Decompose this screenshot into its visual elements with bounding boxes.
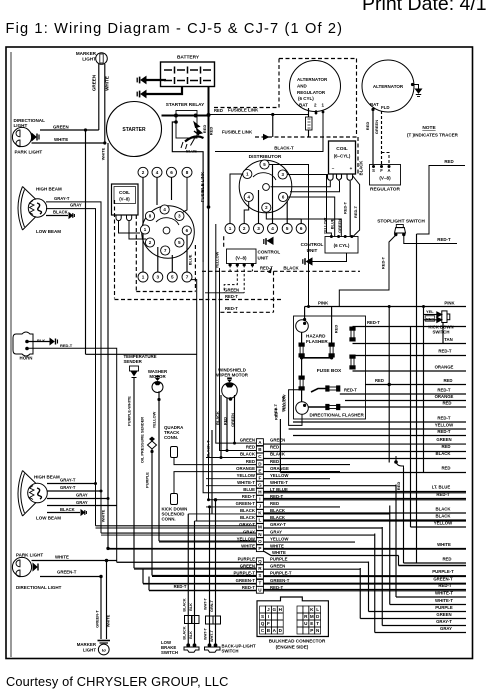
wire bus x219.5 <box>220 268 257 451</box>
junction pink kickdown <box>422 305 425 308</box>
wire row P white long <box>108 547 256 549</box>
wire red to kickdown <box>424 319 438 321</box>
svg-text:PARK LIGHT: PARK LIGHT <box>16 553 43 558</box>
battery ground lead 2 <box>146 87 182 95</box>
svg-text:GRAY-T: GRAY-T <box>54 196 70 201</box>
wire U red-t right <box>263 590 466 592</box>
wire D red right <box>263 464 350 466</box>
wire kickdown down to tan <box>442 323 444 344</box>
rotor center <box>263 184 270 191</box>
wires to back-up light switch <box>209 507 211 645</box>
svg-text:RED-T: RED-T <box>344 388 357 393</box>
resistor block <box>306 117 313 130</box>
svg-text:WHITE: WHITE <box>270 543 284 548</box>
svg-text:WHT-T: WHT-T <box>204 627 208 640</box>
wire center pin down <box>258 190 260 224</box>
svg-text:J: J <box>267 607 270 612</box>
svg-text:3: 3 <box>257 226 260 231</box>
dashed vertical x273.5 <box>273 271 275 312</box>
alternator ground <box>411 83 414 86</box>
svg-text:ORANGE: ORANGE <box>435 365 454 370</box>
relay lever and arrows <box>181 122 204 149</box>
svg-text:RED: RED <box>442 557 451 562</box>
svg-text:GRAY: GRAY <box>270 529 282 534</box>
terminal 1 wire black-t <box>215 110 323 152</box>
svg-text:BLK: BLK <box>189 631 193 639</box>
wire red row from fuse <box>340 406 466 408</box>
pin 5 <box>260 160 269 169</box>
svg-text:RED-T: RED-T <box>270 494 284 499</box>
cylinder terminals 2,4,6,8 (v8) <box>138 167 148 177</box>
svg-text:BLACK: BLACK <box>183 626 187 640</box>
svg-text:S: S <box>261 614 264 619</box>
junction red <box>388 383 391 386</box>
connector arrows directional light <box>32 134 39 141</box>
svg-text:G: G <box>273 607 277 612</box>
terminal T GREEN-T <box>256 580 263 587</box>
svg-text:BLUE: BLUE <box>186 149 197 154</box>
svg-text:3: 3 <box>157 275 160 280</box>
ground headlight upper <box>69 213 74 218</box>
wire bat to regulator S <box>371 108 374 111</box>
svg-text:(6 CYL): (6 CYL) <box>298 96 314 101</box>
wire horn red-t down to Q row <box>27 348 117 562</box>
dashed v8 control unit left <box>223 236 225 247</box>
wire white thick row 565.5 <box>399 565 467 567</box>
wires v8 distributor top terminals <box>142 177 144 225</box>
wire pin1 to cyl row <box>230 174 243 224</box>
svg-text:RED: RED <box>441 444 450 449</box>
svg-text:BLACK: BLACK <box>240 508 256 513</box>
directional-park light (front left) <box>12 127 31 146</box>
wire row U left <box>149 589 256 591</box>
junction white P row <box>106 547 109 550</box>
svg-text:RED-T: RED-T <box>60 343 73 348</box>
svg-text:M: M <box>258 525 262 530</box>
svg-text:YELLOW: YELLOW <box>323 217 328 234</box>
svg-text:WHITE: WHITE <box>437 542 451 547</box>
svg-text:SWITCH: SWITCH <box>161 650 178 655</box>
svg-text:P: P <box>310 628 313 633</box>
svg-text:RED: RED <box>396 482 401 491</box>
svg-text:RED: RED <box>270 445 279 450</box>
svg-text:ORANGE: ORANGE <box>435 394 454 399</box>
wire gray upper to bus <box>46 209 96 526</box>
svg-text:WHITE: WHITE <box>105 76 110 91</box>
wire hazard feed down <box>304 307 306 320</box>
svg-text:STARTER: STARTER <box>122 127 146 133</box>
bulkhead connector (engine side) <box>257 597 328 637</box>
svg-text:GREEN-T: GREEN-T <box>236 501 256 506</box>
wire coil positive down to control unit <box>349 181 351 237</box>
coil terminals <box>328 174 353 181</box>
wire tan row <box>353 343 467 345</box>
wire B red right <box>263 451 466 453</box>
wire pin5 right down <box>269 165 309 307</box>
svg-text:LT. BLUE: LT. BLUE <box>432 485 451 490</box>
regulator (v8) <box>370 165 401 186</box>
dashed wires from v8 control unit terminals <box>229 265 231 271</box>
pin 4 <box>244 192 253 201</box>
svg-text:DIRECTIONAL FLASHER: DIRECTIONAL FLASHER <box>310 413 365 418</box>
dashed fusible link label line <box>214 107 279 109</box>
terminal U RED-T <box>256 586 263 593</box>
svg-text:GREEN-T: GREEN-T <box>57 570 77 575</box>
wire red-t row 498 <box>263 498 466 500</box>
svg-text:GREEN: GREEN <box>436 437 451 442</box>
svg-text:RED-T: RED-T <box>242 585 256 590</box>
alternator and regulator (6 cyl) <box>290 61 341 112</box>
svg-text:RED-T: RED-T <box>343 201 348 214</box>
svg-text:L: L <box>316 607 319 612</box>
wire coil v8 terminal 2 <box>129 221 146 239</box>
wire red row 472 <box>280 472 466 474</box>
terminal O YELLOW <box>256 538 263 545</box>
wire hazard to fuse <box>301 332 303 343</box>
wire row N gray long <box>101 532 256 534</box>
wire coil outer red-t down <box>353 176 360 237</box>
wire starter to battery <box>162 115 209 117</box>
wire white bus x108 <box>107 143 109 548</box>
wire red-t row 422 <box>293 421 466 423</box>
svg-text:YELLOW: YELLOW <box>270 473 289 478</box>
svg-text:RED: RED <box>443 378 452 383</box>
pin 6 <box>279 192 288 201</box>
svg-text:(V–8): (V–8) <box>379 176 391 181</box>
svg-text:2: 2 <box>142 170 145 175</box>
wire coil center tap left <box>290 181 340 192</box>
wire from junction down <box>272 115 274 138</box>
low brake switch <box>186 643 190 647</box>
inline connector low brake <box>185 616 193 624</box>
svg-text:YELLOW: YELLOW <box>281 395 286 412</box>
wire K black right <box>263 513 389 515</box>
terminal K BLACK <box>256 510 263 517</box>
svg-text:A: A <box>387 168 390 173</box>
svg-text:HIGH BEAM: HIGH BEAM <box>34 475 60 480</box>
fuse horizontal upper <box>326 386 340 391</box>
coil (v-8) <box>112 184 139 215</box>
svg-text:DISTRIBUTOR: DISTRIBUTOR <box>249 154 282 160</box>
svg-text:GREEN-T: GREEN-T <box>236 578 256 583</box>
terminal L BLACK <box>256 517 263 524</box>
fuse hazard right <box>329 343 334 357</box>
wire park white long <box>32 560 117 562</box>
svg-text:(V–8): (V–8) <box>235 256 247 261</box>
terminal D RED <box>256 460 263 467</box>
svg-text:RED-T: RED-T <box>437 416 451 421</box>
wire Q purple right <box>263 561 368 563</box>
svg-text:RED: RED <box>365 122 370 131</box>
pin 2 <box>262 203 271 212</box>
svg-text:ω: ω <box>102 648 106 654</box>
svg-text:PURPLE-T: PURPLE-T <box>270 571 292 576</box>
svg-text:RED: RED <box>441 466 450 471</box>
svg-text:RED-T: RED-T <box>381 256 386 269</box>
svg-text:7: 7 <box>186 275 189 280</box>
wire A green right <box>263 443 466 445</box>
terminal S PURPLE-T <box>256 572 263 579</box>
svg-text:HIGH BEAM: HIGH BEAM <box>36 187 62 192</box>
svg-text:SWITCH: SWITCH <box>433 329 450 334</box>
svg-text:YELLOW: YELLOW <box>270 536 289 541</box>
svg-text:WHITE: WHITE <box>272 550 286 555</box>
wires to cylinder circles <box>272 165 274 224</box>
svg-text:4: 4 <box>271 226 274 231</box>
svg-text:4: 4 <box>156 170 159 175</box>
svg-text:TAN: TAN <box>444 337 453 342</box>
svg-text:Print Date: 4/1: Print Date: 4/1 <box>362 0 487 15</box>
pin 8 v8 <box>145 211 154 220</box>
svg-text:P: P <box>258 546 261 551</box>
svg-text:RED: RED <box>246 459 255 464</box>
wire red fusible link to alternator-regulator <box>209 114 309 116</box>
wire staircase verticals right <box>410 327 412 528</box>
wire P2 white extra <box>263 551 398 556</box>
svg-text:STARTER RELAY: STARTER RELAY <box>166 102 205 107</box>
wire green-t directional <box>40 576 101 578</box>
svg-text:Fig 1: Wiring Diagram - CJ-5 &: Fig 1: Wiring Diagram - CJ-5 & CJ-7 (1 O… <box>6 21 344 37</box>
wire orange row 2 <box>345 400 466 402</box>
headlight lower (high-low beam) <box>18 471 47 517</box>
wire stoplight left leg <box>339 235 396 307</box>
svg-text:LIGHT: LIGHT <box>82 57 96 62</box>
svg-text:BLUE: BLUE <box>243 487 255 492</box>
svg-text:RED: RED <box>209 127 214 136</box>
wire kickdown solenoid to E row <box>174 472 256 494</box>
pin 2 v8 <box>145 238 154 247</box>
alternator (v8) <box>362 60 414 112</box>
svg-text:G: G <box>258 482 262 487</box>
svg-text:S: S <box>258 573 261 578</box>
svg-text:COIL: COIL <box>119 190 130 195</box>
svg-text:WHITE: WHITE <box>106 614 111 627</box>
svg-text:RED: RED <box>202 125 207 134</box>
svg-text:BLACK: BLACK <box>359 161 364 176</box>
svg-text:PURPLE-T: PURPLE-T <box>432 569 454 574</box>
svg-text:GREEN: GREEN <box>53 124 69 129</box>
wire I red-t right <box>263 499 466 501</box>
svg-text:BLACK: BLACK <box>240 452 256 457</box>
svg-text:RED: RED <box>270 459 279 464</box>
dashed boundary ignition box left <box>135 215 137 292</box>
wire flasher to fuse <box>308 406 326 408</box>
svg-text:BATTERY: BATTERY <box>177 55 200 61</box>
wire F yellow right <box>263 478 330 480</box>
wire red branch down <box>388 307 390 385</box>
svg-text:BLACK: BLACK <box>435 514 451 519</box>
svg-text:BLK: BLK <box>189 603 193 611</box>
svg-text:YELLOW: YELLOW <box>215 251 220 268</box>
svg-text:ALTERNATOR: ALTERNATOR <box>297 77 328 82</box>
svg-text:YEL: YEL <box>426 309 434 314</box>
terminal P WHITE <box>256 545 263 552</box>
svg-text:RED-T: RED-T <box>242 494 256 499</box>
svg-text:LIGHT: LIGHT <box>14 123 28 128</box>
svg-text:E: E <box>258 468 261 473</box>
wire white to marker <box>32 142 105 144</box>
dashed boundary bottom inner <box>136 291 195 293</box>
wire bus x196.7 from pin7 <box>191 280 257 521</box>
wire red-t row from fuse <box>340 393 466 395</box>
junction green <box>84 128 87 131</box>
wire row M gray-t long <box>96 525 257 527</box>
wire yellow row 429 <box>289 428 466 430</box>
wire black row 520 <box>263 519 466 521</box>
fuse box outline <box>294 316 366 419</box>
terminal J RED <box>256 503 263 510</box>
svg-text:PINK: PINK <box>444 301 455 306</box>
terminal F YELLOW <box>256 474 263 481</box>
wire white marker light <box>104 64 106 143</box>
main bus wire down right <box>416 234 418 563</box>
wire bat resistor to link <box>308 130 310 137</box>
control unit (v8) <box>227 249 257 264</box>
svg-text:ALTERNATOR: ALTERNATOR <box>373 84 404 89</box>
svg-text:REGULATOR: REGULATOR <box>297 90 326 95</box>
fuse horizontal lower <box>326 404 340 409</box>
wire bus x203.1 <box>203 262 256 493</box>
marker light (front, top) <box>96 53 108 65</box>
svg-text:YELLOW: YELLOW <box>435 423 454 428</box>
svg-text:L: L <box>258 518 261 523</box>
svg-text:1: 1 <box>142 275 145 280</box>
svg-text:+: + <box>350 166 353 171</box>
svg-text:BLACK: BLACK <box>183 598 187 612</box>
svg-text:FUSIBLE LINK: FUSIBLE LINK <box>200 171 205 202</box>
wire gray-t upper to bus <box>46 202 101 533</box>
wire relay to ignition bus <box>172 122 203 262</box>
svg-text:BLACK: BLACK <box>60 507 75 512</box>
svg-text:LOW BEAM: LOW BEAM <box>36 229 61 234</box>
svg-text:STOPLIGHT SWITCH: STOPLIGHT SWITCH <box>377 219 425 225</box>
svg-text:I: I <box>268 614 269 619</box>
svg-text:GRAY: GRAY <box>76 493 88 498</box>
dashed wire top to alternator-regulator <box>279 58 357 60</box>
svg-text:BLACK-T: BLACK-T <box>274 146 294 151</box>
svg-text:8: 8 <box>186 170 189 175</box>
svg-text:1: 1 <box>229 226 232 231</box>
terminal G WHITE-T <box>256 481 263 488</box>
dashed boundary mid <box>202 270 360 272</box>
svg-text:GREEN: GREEN <box>92 74 97 91</box>
svg-text:WHITE-T: WHITE-T <box>270 480 288 485</box>
svg-text:GRN-T: GRN-T <box>210 599 214 612</box>
headlight upper (high-low beam) <box>18 187 47 231</box>
wire black-t wiper <box>211 430 213 514</box>
svg-text:F: F <box>258 475 261 480</box>
battery ground lead 1 <box>146 79 166 81</box>
svg-text:FUSIBLE LINK: FUSIBLE LINK <box>222 130 253 135</box>
pin 3 v8 <box>175 211 184 220</box>
svg-text:BLACK: BLACK <box>53 210 68 215</box>
wire white row 548.5 <box>263 548 466 550</box>
svg-text:S: S <box>372 168 375 173</box>
wire red row 563 <box>404 562 467 564</box>
wire O yellow right <box>263 541 355 543</box>
wire green to marker <box>40 129 99 131</box>
svg-text:RED-T: RED-T <box>437 237 451 242</box>
wire P white right <box>263 548 466 550</box>
wire G white-t right <box>263 485 396 487</box>
svg-text:WHT-T: WHT-T <box>210 629 214 642</box>
svg-text:(6 CYL): (6 CYL) <box>334 243 350 248</box>
junction fusible link <box>207 205 211 209</box>
wire pink row <box>305 306 466 308</box>
wire control unit down arrow <box>312 253 347 262</box>
svg-text:GREEN: GREEN <box>270 437 285 442</box>
svg-text:RED: RED <box>222 417 227 425</box>
wire green row <box>205 292 244 294</box>
svg-text:SWITCH: SWITCH <box>222 649 239 654</box>
svg-text:LIGHT: LIGHT <box>83 648 96 653</box>
svg-text:GRAY-T: GRAY-T <box>270 522 286 527</box>
terminal R GREEN <box>256 565 263 572</box>
wire green marker light <box>98 64 100 130</box>
svg-text:T: T <box>258 581 261 586</box>
wire row O yellow long (washer) <box>159 540 256 542</box>
svg-text:GRAY-T: GRAY-T <box>60 478 76 483</box>
svg-text:WHITE: WHITE <box>101 509 106 522</box>
wire yel to kickdown <box>424 314 438 316</box>
svg-text:RED-T: RED-T <box>274 407 279 420</box>
svg-text:GRAY: GRAY <box>70 203 82 208</box>
svg-text:FUSIBLE LINK: FUSIBLE LINK <box>228 108 259 113</box>
svg-text:BLK: BLK <box>37 338 45 343</box>
wire bus x86 turn right <box>86 353 197 355</box>
wire R green right <box>263 568 360 570</box>
terminal C BLACK <box>256 453 263 460</box>
wire gray-t 2 <box>47 490 101 492</box>
svg-text:RED-T: RED-T <box>225 294 238 299</box>
svg-text:F: F <box>380 168 383 173</box>
svg-text:FLASHER: FLASHER <box>306 339 328 344</box>
wire C black right <box>263 458 466 460</box>
svg-text:HAZARD: HAZARD <box>306 334 326 339</box>
svg-text:YELLOW: YELLOW <box>237 473 256 478</box>
fuse right lower <box>350 355 355 369</box>
wire pin2 to control unit (green) <box>266 212 341 236</box>
terminal E ORANGE <box>256 467 263 474</box>
svg-text:GREEN: GREEN <box>240 437 255 442</box>
svg-text:PURPLE: PURPLE <box>435 605 453 610</box>
svg-text:WHITE-T: WHITE-T <box>435 598 453 603</box>
svg-text:WHITE: WHITE <box>54 137 68 142</box>
wire T green-t right <box>263 583 466 585</box>
svg-text:COIL: COIL <box>336 146 348 152</box>
svg-text:5: 5 <box>171 275 174 280</box>
svg-text:GREEN: GREEN <box>270 563 285 568</box>
svg-text:CONTROL: CONTROL <box>301 242 324 247</box>
wire M gray-t right <box>263 527 382 529</box>
wire washer motor down <box>158 391 160 541</box>
wire fld dashed to regulator F <box>381 111 383 164</box>
svg-text:E: E <box>310 621 313 626</box>
wire bus x86 green <box>85 130 87 354</box>
wire bus x208.5 (fusible link cont) <box>209 300 257 500</box>
horn <box>13 332 33 356</box>
terminal BAT <box>308 108 310 117</box>
svg-text:GREEN: GREEN <box>337 219 342 233</box>
wires to low brake switch <box>187 514 189 645</box>
svg-text:RED: RED <box>442 401 451 406</box>
svg-text:GREEN-T: GREEN-T <box>95 610 100 628</box>
wire L black right <box>263 520 466 522</box>
svg-text:(6–CYL): (6–CYL) <box>334 154 351 159</box>
wire black upper <box>46 215 68 217</box>
svg-text:RED-T: RED-T <box>174 584 187 589</box>
svg-text:UNIT: UNIT <box>258 256 269 261</box>
